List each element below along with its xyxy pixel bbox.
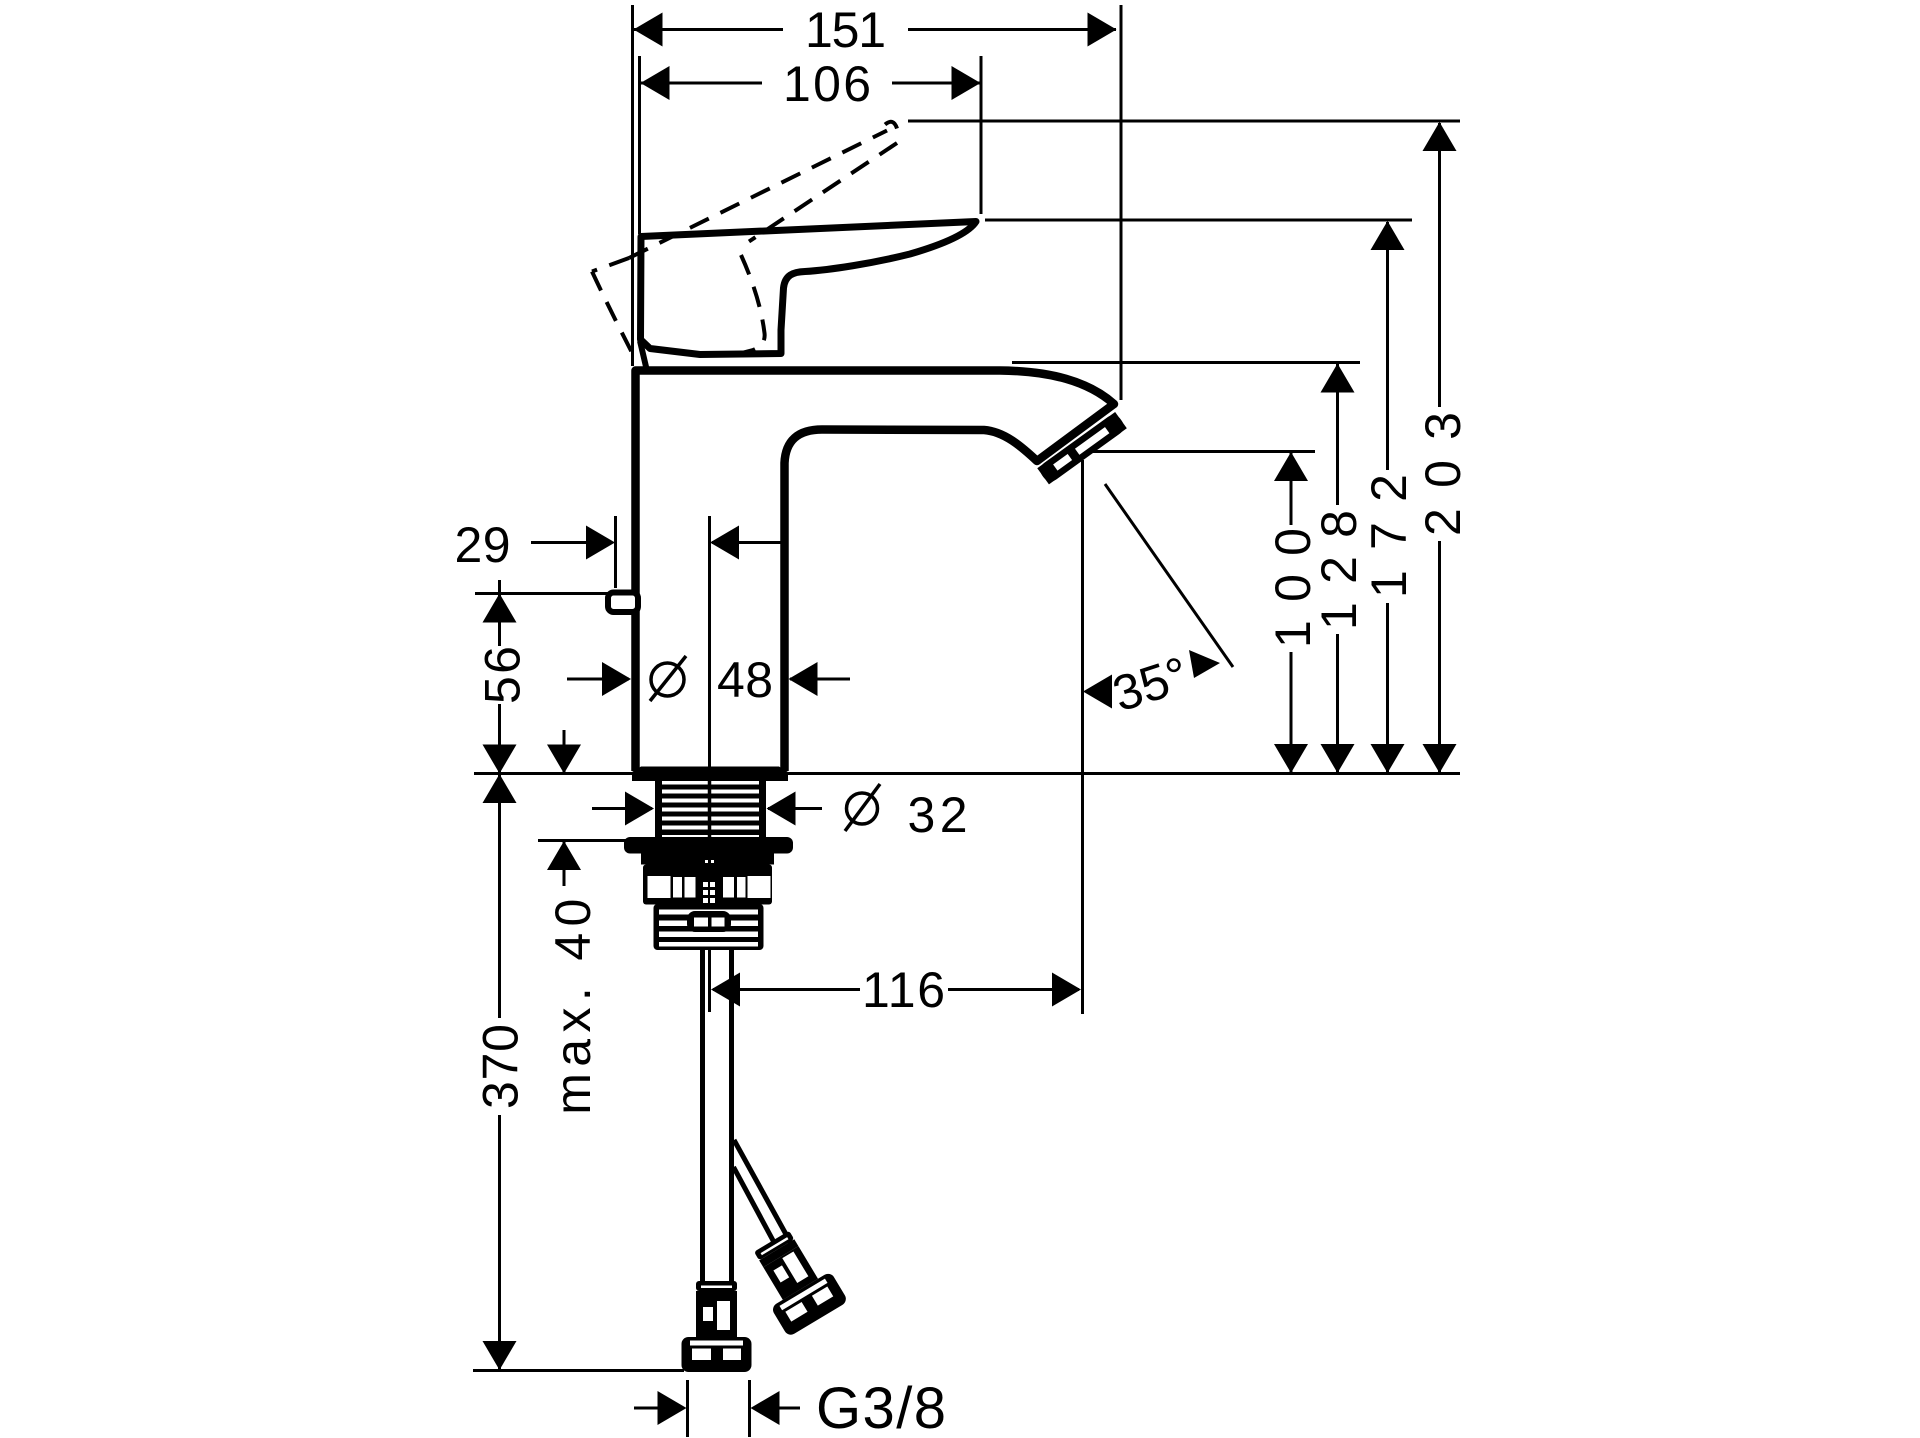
base flange — [632, 767, 788, 782]
extension line G3/8 right — [748, 1380, 751, 1437]
extension line washer top (max40) — [538, 839, 636, 842]
vertical hose end fitting — [682, 1281, 752, 1372]
dim line 56 — [498, 580, 501, 646]
arrow 35 deg line end — [1189, 650, 1220, 678]
extension line aerator outlet (100) — [1092, 450, 1315, 453]
vertical supply hose — [700, 950, 705, 1282]
bottom hose reference line (370) — [473, 1369, 684, 1372]
svg-text:G3/8: G3/8 — [816, 1376, 946, 1438]
threaded stud dots — [703, 882, 715, 911]
extension line body top (128) — [1012, 361, 1360, 364]
35 degree stream line — [1105, 484, 1233, 667]
dim line 151 — [633, 28, 783, 31]
diameter symbol 32 — [845, 784, 880, 831]
svg-text:151: 151 — [805, 2, 886, 58]
arrow 172 bottom — [1371, 744, 1405, 773]
extension line G3/8 left — [686, 1380, 689, 1437]
dim line 100 — [1290, 453, 1293, 525]
arrow 100 bottom — [1274, 744, 1308, 773]
pop-up rod knob — [608, 593, 638, 613]
arrow 203 bottom — [1423, 744, 1457, 773]
arrow 116 left — [711, 973, 740, 1007]
handle raised position (dashed) — [592, 122, 897, 357]
washer 2 — [641, 854, 774, 865]
extension line handle tip (106 right) — [980, 56, 983, 214]
svg-text:116: 116 — [862, 962, 945, 1018]
dim line G3/8 — [634, 1407, 684, 1410]
arrow max40 upper — [547, 745, 581, 774]
extension line handle rear (106) — [638, 56, 641, 234]
arrow 151 right — [1088, 13, 1117, 47]
arrow 106 left — [641, 66, 670, 100]
mounting nut with slots — [643, 860, 772, 905]
arrow d48 left — [602, 662, 631, 696]
dim line 370 — [498, 775, 501, 1018]
arrow G3/8 right — [751, 1391, 780, 1425]
arrow 203 top — [1423, 122, 1457, 151]
arrow 116 right — [1052, 973, 1081, 1007]
handle (solid, lowered position) — [641, 222, 977, 355]
diagonal hose end fitting — [742, 1223, 849, 1337]
arrow 172 top — [1371, 221, 1405, 250]
arrow d32 left — [625, 792, 654, 826]
extension line spout tip (151 right) — [1120, 5, 1123, 400]
svg-text:128: 128 — [1311, 510, 1367, 630]
arrow 151 left — [634, 13, 663, 47]
arrow 370 bottom — [483, 1341, 517, 1370]
arrow 106 right — [952, 66, 981, 100]
lower striped collar — [654, 904, 764, 950]
dim line 203 — [1438, 123, 1441, 407]
arrow 370 top — [483, 774, 517, 803]
threaded shank — [655, 781, 766, 838]
dim line 29 — [531, 541, 612, 544]
arrow 29 outer — [586, 526, 615, 560]
extension line aerator vertical (116/35) — [1081, 460, 1084, 1014]
arrow 56 top — [483, 594, 517, 623]
svg-text:106: 106 — [783, 56, 871, 112]
dim line d48 — [567, 678, 629, 681]
arrow 100 top — [1274, 452, 1308, 481]
arrow 128 bottom — [1321, 744, 1355, 773]
arrow 128 top — [1321, 364, 1355, 393]
dim line d32 — [592, 807, 652, 810]
arrow 29 inner — [710, 526, 739, 560]
arrow 35 deg label — [1083, 675, 1112, 709]
centerline of body — [708, 516, 711, 1012]
dim line 116 — [713, 988, 860, 991]
arrow G3/8 left — [658, 1391, 687, 1425]
dim line 106 — [641, 82, 762, 85]
svg-text:29: 29 — [455, 517, 511, 573]
arrow 56 bottom — [483, 745, 517, 774]
svg-text:172: 172 — [1361, 474, 1417, 598]
extension line handle top (172) — [985, 219, 1412, 222]
arrow d48 right — [789, 662, 818, 696]
aerator at spout tip — [1037, 412, 1127, 484]
extension line pop-up rod (29) — [614, 516, 617, 588]
svg-text:370: 370 — [473, 1024, 529, 1109]
deck reference line — [474, 772, 1460, 775]
svg-text:203: 203 — [1415, 412, 1471, 536]
dim line 172 — [1386, 222, 1389, 470]
large washer under deck — [624, 837, 793, 854]
extension line pop-up knob (56) — [475, 592, 618, 595]
diameter symbol 48 — [650, 656, 686, 701]
extension line raised handle top (203) — [908, 120, 1460, 123]
arrow max40 lower — [547, 841, 581, 870]
svg-text:48: 48 — [717, 652, 773, 708]
dim line 128 — [1336, 364, 1339, 505]
arrow d32 right — [767, 792, 796, 826]
diagonal supply hose — [734, 1140, 793, 1247]
handle pivot wedge — [640, 341, 647, 371]
faucet body and spout outline — [636, 371, 1115, 772]
dim line max40 — [563, 730, 566, 772]
extension line back face (151) — [631, 5, 634, 366]
